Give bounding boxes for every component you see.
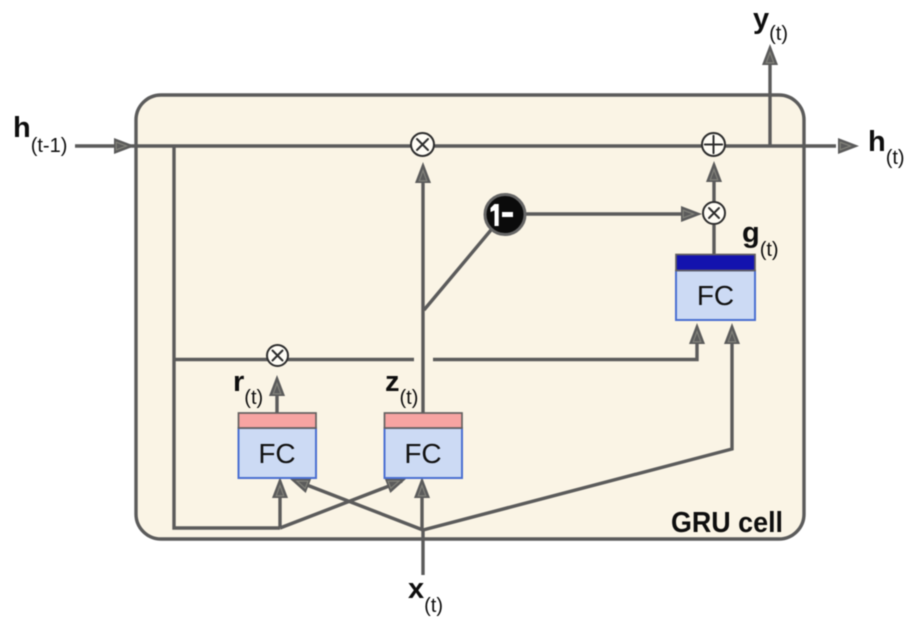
svg-text:FC: FC <box>404 438 441 469</box>
svg-text:FC: FC <box>697 280 734 311</box>
op multiply lower <box>703 202 725 224</box>
wire reset line right segment to g <box>433 330 697 360</box>
arrowhead into FC g right <box>724 323 740 344</box>
op add <box>702 133 725 156</box>
svg-text:h(t-1): h(t-1) <box>13 112 67 157</box>
arrowhead into lower multiply <box>681 206 702 222</box>
arrowhead into FC g left <box>689 323 705 344</box>
FC g box <box>676 255 755 321</box>
wire z branch to 1- <box>424 230 491 310</box>
op multiply reset <box>267 345 288 366</box>
arrowhead into cell (h(t-1)) <box>114 138 135 154</box>
wire h(t-1) drop and bottom run <box>174 146 280 528</box>
FC r box <box>239 413 317 478</box>
wire x to z vertical <box>420 483 423 530</box>
arrowhead into add <box>706 161 722 182</box>
wire 1- to lower multiply <box>526 212 682 215</box>
wire reset line left segment <box>174 358 414 361</box>
arrowhead r into reset multiply <box>269 375 285 396</box>
arrowhead into FC z bottom-left <box>385 471 410 493</box>
svg-text:y(t): y(t) <box>753 3 788 45</box>
arrowhead h(t) output <box>838 138 859 154</box>
wire x(t) stem <box>421 530 424 575</box>
wire lower multiply to add <box>712 182 715 203</box>
svg-text:FC: FC <box>258 438 295 469</box>
wire r input vertical <box>278 483 281 528</box>
wire r output up <box>275 396 278 413</box>
wire lower multiply to g box <box>712 225 715 254</box>
GRU cell body <box>136 95 804 539</box>
arrowhead into FC z bottom-right <box>414 477 430 498</box>
arrowhead into FC r bottom-right <box>286 471 311 493</box>
wire y(t) branch <box>768 63 771 146</box>
arrowhead z into top multiply <box>415 162 431 183</box>
wire h to z diagonal <box>280 481 402 528</box>
node 1-minus <box>485 195 525 235</box>
svg-text:x(t): x(t) <box>408 573 443 617</box>
wire x to g diagonal and rise <box>423 330 732 530</box>
wire z output up <box>421 183 424 413</box>
svg-text:h(t): h(t) <box>868 126 905 169</box>
wire main h line <box>75 144 836 147</box>
op multiply top <box>411 133 434 156</box>
svg-text:GRU cell: GRU cell <box>671 507 783 539</box>
wire x to r diagonal <box>294 480 423 530</box>
arrowhead into FC r bottom-left <box>272 477 288 498</box>
FC z box <box>385 413 463 478</box>
arrowhead y(t) <box>762 44 778 65</box>
